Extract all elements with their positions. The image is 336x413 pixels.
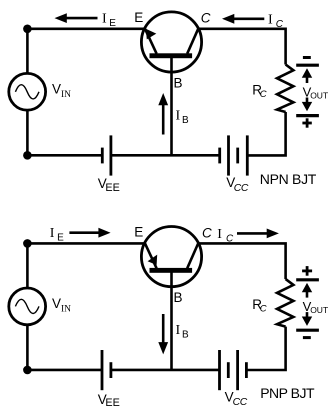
svg-text:B: B <box>182 115 189 126</box>
current arrow I_B (NPN, pointing up) <box>158 93 168 135</box>
svg-text:I: I <box>50 226 55 241</box>
Q2 emitter lead <box>145 243 157 268</box>
current arrow I_C (NPN, pointing left) <box>222 14 264 24</box>
wire: NPN left rail upper segment <box>26 29 29 74</box>
wire: NPN emitter wire <box>27 27 145 30</box>
current arrow I_B (PNP, pointing down) <box>158 314 168 354</box>
svg-text:I: I <box>176 323 181 338</box>
Q2 collector lead <box>187 243 198 268</box>
transistor Q1 body circle <box>141 12 201 72</box>
svg-text:C: C <box>226 234 234 245</box>
V_OUT minus sign (NPN) <box>303 56 311 59</box>
V_OUT up arrow (NPN) <box>302 68 312 83</box>
svg-text:B: B <box>182 330 189 341</box>
svg-text:CC: CC <box>234 183 249 194</box>
AC source V_IN (PNP) <box>9 288 46 325</box>
node: NPN bottom-left junction <box>23 151 32 160</box>
current arrow I_E (PNP, pointing right) <box>69 228 110 238</box>
svg-text:EE: EE <box>105 397 119 409</box>
svg-text:I: I <box>217 227 222 242</box>
V_OUT bottom plate (NPN) <box>296 114 319 117</box>
svg-text:C: C <box>202 225 212 240</box>
wire: NPN left rail lower segment <box>26 110 29 155</box>
node: PNP top-left junction <box>23 239 32 248</box>
svg-text:E: E <box>134 225 143 240</box>
svg-text:CC: CC <box>233 397 248 408</box>
Q2 base lead <box>170 272 173 370</box>
wire: PNP emitter wire <box>27 242 145 245</box>
wire: NPN right rail lower and bottom-right segment <box>248 112 285 155</box>
battery V_CC (NPN) <box>220 135 248 175</box>
svg-text:B: B <box>174 76 183 91</box>
svg-text:EE: EE <box>105 182 119 194</box>
Q2 base bar <box>150 268 193 273</box>
transistor Q2 body circle <box>141 227 201 287</box>
resistor R_C (NPN) <box>277 65 293 113</box>
svg-text:NPN BJT: NPN BJT <box>260 171 317 187</box>
wire: NPN bottom middle segment <box>111 154 220 157</box>
svg-text:PNP BJT: PNP BJT <box>260 385 315 401</box>
svg-text:B: B <box>174 290 183 305</box>
svg-text:I: I <box>102 12 107 27</box>
current arrow I_C (PNP, pointing right) <box>237 229 279 239</box>
svg-text:E: E <box>57 233 64 244</box>
svg-text:C: C <box>201 11 211 26</box>
Q1 emitter lead <box>145 29 157 54</box>
battery V_EE (NPN) <box>102 135 111 175</box>
V_OUT plus sign (NPN) <box>302 118 311 127</box>
wire: PNP bottom middle segment <box>111 369 219 372</box>
svg-text:OUT: OUT <box>310 305 328 315</box>
V_OUT up arrow (PNP) <box>302 283 312 298</box>
wire: PNP bottom left segment <box>27 369 102 372</box>
Q1 base bar <box>150 53 193 58</box>
wire: PNP left rail upper segment <box>26 243 29 288</box>
battery V_CC (PNP, reversed polarity) <box>220 350 247 390</box>
resistor R_C (PNP) <box>277 279 293 327</box>
svg-text:C: C <box>276 19 284 30</box>
wire: PNP collector wire and right rail upper <box>198 243 285 279</box>
V_OUT top plate (PNP) <box>296 278 319 281</box>
svg-text:C: C <box>260 304 267 315</box>
svg-text:I: I <box>268 12 273 27</box>
svg-text:I: I <box>176 109 181 124</box>
V_OUT down arrow (NPN) <box>302 98 312 112</box>
wire: NPN bottom left segment <box>27 154 102 157</box>
svg-text:VIN: VIN <box>52 296 71 315</box>
Q2 emitter arrow (PNP, pointing in toward base) <box>148 255 158 265</box>
V_OUT bottom plate (PNP) <box>296 329 319 332</box>
battery V_EE (PNP, reversed polarity) <box>102 350 111 390</box>
V_OUT plus sign (PNP) <box>302 266 312 276</box>
wire: NPN collector wire and right rail upper <box>198 29 285 65</box>
Q1 emitter arrow (NPN, pointing out toward E) <box>146 29 157 40</box>
svg-text:E: E <box>134 10 143 25</box>
node: PNP bottom-left junction <box>23 366 32 375</box>
V_OUT top plate (NPN) <box>296 64 319 67</box>
svg-text:VIN: VIN <box>52 82 71 101</box>
V_OUT down arrow (PNP) <box>302 312 312 326</box>
current arrow I_E (NPN, pointing left) <box>55 13 98 23</box>
wire: PNP left rail lower segment <box>26 325 29 370</box>
Q1 base lead <box>170 57 173 155</box>
AC source V_IN (NPN) <box>9 73 46 110</box>
svg-text:OUT: OUT <box>310 91 328 101</box>
Q1 collector lead <box>187 29 198 54</box>
wire: PNP right rail lower and bottom-right segment <box>248 327 286 370</box>
node: NPN top-left junction <box>23 25 32 34</box>
svg-text:E: E <box>109 18 116 29</box>
V_OUT minus sign (PNP) <box>303 336 311 339</box>
svg-text:C: C <box>260 89 267 100</box>
